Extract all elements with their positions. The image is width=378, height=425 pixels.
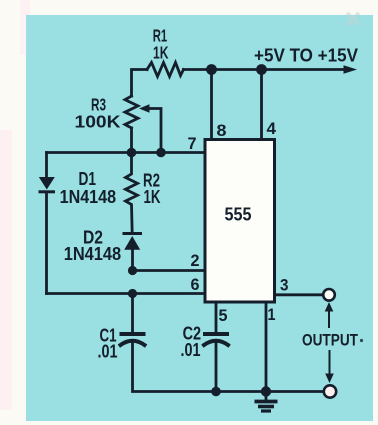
ground stub [265, 392, 268, 401]
svg-text:6: 6 [191, 275, 200, 294]
wire C1 to bottom rail [133, 344, 323, 392]
wire D1 to bottom corner [45, 193, 48, 293]
svg-text:1K: 1K [153, 43, 169, 63]
junction dot wiper [156, 148, 166, 158]
wire pin 8 stub [210, 70, 213, 140]
wire pin 3 to output terminal [275, 293, 323, 296]
capacitor C1 curved plate [121, 341, 145, 345]
output terminal bottom [324, 385, 336, 397]
svg-text:2: 2 [191, 251, 200, 270]
junction dot C2 rail [211, 387, 221, 397]
scan artifact top-right corner [347, 13, 359, 25]
wire pin 7 horizontal [47, 151, 206, 154]
potentiometer R3 wiper [148, 109, 161, 153]
svg-text:100K: 100K [75, 112, 121, 132]
svg-text:8: 8 [217, 121, 227, 140]
wire C2 to bottom rail [215, 344, 218, 392]
junction dot pin2 node [128, 266, 137, 275]
capacitor C1 top plate [122, 332, 144, 336]
svg-text:+5V TO +15V: +5V TO +15V [254, 46, 358, 66]
wire pin 6 horizontal [47, 292, 206, 295]
wire left branch down to D1 [45, 153, 48, 178]
svg-text:1: 1 [268, 305, 276, 324]
output arrow down [325, 350, 334, 383]
output arrow up [325, 302, 334, 328]
IC U1 555 timer body [205, 140, 275, 303]
svg-text:5: 5 [219, 306, 228, 325]
svg-text:1N4148: 1N4148 [64, 243, 121, 264]
svg-text:3: 3 [280, 276, 289, 295]
capacitor C2 curved plate [204, 341, 228, 345]
svg-text:.01: .01 [98, 342, 118, 362]
wire pin 2 horizontal [133, 269, 206, 272]
wire R3 to node [130, 128, 133, 153]
diode D2 cathode bar [124, 232, 141, 235]
resistor R2 [126, 153, 138, 234]
diode D1 [39, 177, 56, 193]
junction dot rail pin8 [206, 64, 217, 75]
diode D2 [124, 236, 140, 250]
potentiometer R3 body [125, 96, 138, 128]
scan speck after OUTPUT label [360, 339, 363, 342]
svg-text:4: 4 [267, 119, 277, 138]
junction dot R3 bottom [127, 148, 137, 158]
svg-text:7: 7 [188, 134, 197, 153]
wire pin 5 down through C2 [215, 302, 218, 333]
arrowhead supply rail [344, 65, 358, 73]
junction dot rail pin4 [256, 64, 267, 75]
svg-text:555: 555 [225, 204, 252, 225]
svg-text:1N4148: 1N4148 [60, 186, 117, 207]
arrowhead R3 wiper [139, 104, 150, 112]
wire node pin6 down to C1 [131, 294, 134, 334]
wire pin 4 stub [260, 70, 263, 140]
junction dot ground rail [261, 386, 271, 396]
capacitor C2 top plate [205, 332, 227, 336]
wire pin 1 down to ground node [265, 302, 268, 392]
ground symbol [255, 402, 278, 412]
svg-text:OUTPUT: OUTPUT [302, 332, 358, 350]
wire top supply rail [132, 70, 148, 97]
output terminal top [323, 289, 335, 301]
wire top rail right segment [184, 68, 346, 71]
svg-text:.01: .01 [181, 340, 201, 360]
resistor R1 [147, 63, 184, 77]
junction dot pin6 node [128, 289, 137, 298]
wire D2 to pin 2 node [131, 250, 134, 271]
svg-text:1K: 1K [144, 187, 161, 207]
